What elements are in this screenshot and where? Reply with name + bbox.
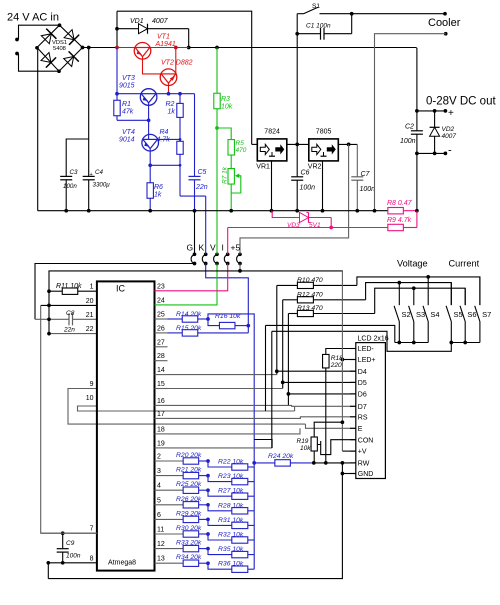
svg-text:R4: R4	[160, 129, 169, 136]
node D6	[287, 392, 291, 396]
capacitor C4 electrolytic	[83, 175, 95, 177]
node bridge right corner	[81, 46, 85, 50]
wire +5 main vertical to LCD	[341, 271, 343, 451]
junction ground rail	[355, 209, 359, 213]
wire ground to bottom border	[47, 563, 49, 579]
svg-text:24: 24	[157, 298, 165, 305]
svg-text:22n: 22n	[63, 327, 75, 334]
node ladder R24 tap	[252, 461, 256, 465]
node R34 junction	[206, 561, 210, 565]
svg-text:VT4: VT4	[122, 129, 135, 136]
wire G drop	[194, 211, 196, 251]
node RW R18	[324, 461, 328, 465]
zener VD3 5V1	[272, 211, 300, 218]
node + row left	[415, 109, 419, 113]
resistor R30 20k	[183, 531, 199, 537]
IC Atmega8 body	[97, 281, 155, 570]
wire D6 row	[288, 393, 355, 395]
svg-text:Current: Current	[449, 259, 480, 269]
resistor R34 20k	[183, 560, 199, 566]
wire K drop	[205, 196, 207, 250]
node R26 junction	[206, 503, 210, 507]
svg-text:20: 20	[86, 298, 94, 305]
node R8 right	[415, 209, 419, 213]
resistor R8 0.47 current sense	[388, 208, 404, 214]
svg-text:R27 10k: R27 10k	[218, 488, 244, 495]
svg-text:VR1: VR1	[256, 164, 270, 171]
output terminal -	[444, 152, 448, 156]
wire ladder bus	[253, 440, 255, 570]
junction ground rail	[270, 209, 274, 213]
wire bus1 R10	[357, 277, 480, 305]
wire cooler return	[375, 34, 446, 211]
node C1 branch	[295, 32, 299, 36]
wire pin19 jog	[254, 440, 272, 448]
svg-text:R22 10k: R22 10k	[218, 459, 244, 466]
capacitor C3	[60, 175, 72, 177]
wire pin19 row	[168, 447, 273, 449]
svg-text:RW: RW	[358, 461, 370, 468]
svg-text:D6: D6	[358, 392, 367, 399]
wire rail black mid	[189, 47, 417, 49]
wire V down to pin24	[168, 264, 218, 305]
svg-text:C4: C4	[95, 169, 103, 176]
capacitor C2 100n	[416, 111, 418, 130]
wire pin10 end jog	[294, 406, 296, 411]
switch S2	[398, 283, 400, 306]
svg-text:1k: 1k	[168, 109, 176, 116]
svg-text:R31 10k: R31 10k	[218, 517, 244, 524]
svg-text:D7: D7	[358, 404, 367, 411]
svg-text:VD1: VD1	[130, 18, 144, 25]
svg-text:19: 19	[157, 440, 165, 447]
node LED+ +5	[341, 358, 345, 362]
svg-text:26: 26	[157, 325, 165, 332]
svg-text:R16 10k: R16 10k	[215, 313, 241, 320]
wire LED+ to +5	[342, 359, 355, 361]
wire VR2 ground pin	[322, 161, 324, 211]
wire to C3 C4	[88, 48, 90, 177]
svg-text:R6: R6	[154, 184, 163, 191]
diode VD2 4007	[434, 111, 436, 127]
wire VR1 out to VR2 in	[287, 143, 309, 145]
wire to ladder bus	[208, 314, 254, 440]
wire pin24 green stub	[155, 304, 168, 306]
svg-text:R20 20k: R20 20k	[176, 452, 202, 459]
connector pin +5	[238, 252, 242, 256]
wire D7 row	[295, 405, 356, 407]
svg-text:R11 10k: R11 10k	[56, 283, 82, 290]
resistor R3 10k	[216, 48, 218, 94]
switch S7	[479, 277, 481, 305]
svg-text:RS: RS	[358, 414, 368, 421]
node S2 bottom	[397, 341, 401, 345]
wire AC neutral down	[36, 48, 39, 211]
svg-text:17: 17	[157, 411, 165, 418]
wire RW row	[314, 462, 356, 464]
svg-text:100n: 100n	[360, 186, 376, 193]
AC input terminal top	[15, 38, 19, 42]
wire D5 row	[283, 381, 356, 383]
node S4 top	[426, 275, 430, 279]
node pin20 +5	[47, 304, 51, 308]
svg-text:4: 4	[157, 483, 161, 490]
svg-text:10: 10	[86, 395, 94, 402]
wire top feeder to VR1	[117, 11, 252, 144]
wire K source	[180, 195, 206, 197]
wire D6 vertical	[287, 314, 289, 406]
connector pin I	[226, 252, 230, 256]
node D4	[275, 369, 279, 373]
wire GND row	[342, 473, 355, 475]
node VT4 emitter node	[148, 163, 152, 167]
node S1/C1 join	[350, 12, 354, 16]
resistor R36 10k	[208, 563, 232, 569]
svg-text:22n: 22n	[195, 184, 208, 191]
svg-text:7824: 7824	[264, 129, 280, 136]
resistor R18 220	[323, 354, 330, 368]
node R29 junction	[206, 518, 210, 522]
resistor R6 1k	[149, 165, 151, 183]
svg-text:R34 20k: R34 20k	[176, 554, 202, 561]
resistor R16 10k	[208, 319, 220, 326]
node VD2 bottom	[433, 152, 437, 156]
svg-text:R25 20k: R25 20k	[176, 481, 202, 488]
resistor R29 20k	[183, 516, 199, 522]
svg-text:S6: S6	[467, 310, 476, 319]
node D5	[281, 381, 285, 385]
svg-text:4.7k: 4.7k	[157, 137, 171, 144]
node R21 junction	[206, 474, 210, 478]
svg-text:CON: CON	[358, 437, 374, 444]
svg-text:3300μ: 3300μ	[93, 182, 111, 189]
node R3 top	[215, 46, 219, 50]
switch S4	[427, 277, 429, 305]
node - row left	[415, 152, 419, 156]
wire pin14 to D4 vertical	[168, 374, 277, 376]
svg-text:R21 20k: R21 20k	[176, 467, 202, 474]
wire VCC long drop to pin7	[41, 305, 97, 533]
wire +5 to rail	[239, 264, 241, 271]
switch S3	[413, 288, 415, 305]
wire D7 jog	[288, 404, 294, 407]
svg-text:9015: 9015	[119, 83, 135, 90]
svg-text:GND: GND	[358, 471, 374, 478]
svg-text:R13 470: R13 470	[297, 305, 323, 312]
wire VT4 emitter to R6	[149, 149, 151, 166]
svg-text:R8 0.47: R8 0.47	[387, 200, 413, 207]
wire S1 branch vertical	[296, 14, 298, 145]
svg-text:VD2: VD2	[442, 126, 455, 133]
resistor R32 10k	[208, 534, 232, 540]
svg-text:R14 20k: R14 20k	[176, 311, 202, 318]
resistor R12 470	[283, 299, 298, 301]
connector pin K	[204, 252, 208, 256]
resistor R9 4.7k	[331, 227, 388, 229]
svg-text:16: 16	[157, 398, 165, 405]
svg-text:C9: C9	[66, 540, 75, 547]
node VD1 cathode junction	[187, 46, 191, 50]
cooler terminal -	[444, 32, 448, 36]
junction ground rail	[373, 209, 377, 213]
svg-text:-: -	[448, 145, 452, 157]
resistor R31 10k	[208, 519, 232, 525]
svg-text:VR2: VR2	[308, 164, 322, 171]
wire +5 rail	[49, 270, 342, 273]
resistor R1 47k	[116, 94, 118, 101]
node C9 top	[61, 531, 65, 535]
svg-text:LCD 2x16: LCD 2x16	[358, 336, 389, 343]
svg-text:+5: +5	[231, 243, 241, 253]
node VD1 anode	[115, 27, 119, 31]
svg-text:VT2 D882: VT2 D882	[161, 60, 193, 67]
node S5 bottom	[449, 341, 453, 345]
svg-text:220: 220	[330, 362, 342, 369]
node R2 top junction	[178, 92, 182, 96]
svg-text:R30 20k: R30 20k	[176, 525, 202, 532]
node R33 junction	[206, 547, 210, 551]
node I tap	[329, 226, 333, 230]
node R16 right K junction	[246, 324, 250, 328]
svg-text:C6: C6	[301, 170, 310, 177]
AC input terminal bottom	[15, 52, 19, 56]
wire RS from pin17	[168, 417, 356, 419]
svg-text:R19: R19	[297, 438, 309, 445]
wire C1 up to S1 line	[351, 14, 353, 34]
svg-text:24 V AC in: 24 V AC in	[7, 12, 59, 24]
wire pin15 to D5 vertical	[168, 388, 283, 390]
svg-text:LED+: LED+	[358, 357, 376, 364]
wire VT2 collector to rail	[175, 48, 177, 74]
svg-text:E: E	[358, 426, 363, 433]
svg-text:C3: C3	[70, 169, 78, 176]
capacitor C9 100n	[62, 533, 64, 548]
wire +5 left drop	[48, 271, 50, 334]
svg-text:10k: 10k	[300, 445, 311, 452]
svg-text:C7: C7	[361, 171, 371, 178]
svg-text:VT1: VT1	[157, 34, 170, 41]
svg-text:27: 27	[157, 339, 165, 346]
svg-text:R36 10k: R36 10k	[218, 561, 244, 568]
node VR1 out / C6 / S1 feed	[295, 143, 299, 147]
wire VT3 collector to blue rail	[156, 93, 195, 95]
svg-text:3: 3	[157, 468, 161, 475]
svg-text:R15 20k: R15 20k	[176, 325, 202, 332]
resistor R25 20k	[183, 487, 199, 493]
svg-text:R33 20k: R33 20k	[176, 540, 202, 547]
wire bus2 R12	[366, 283, 452, 305]
trimmer R19 10k	[311, 437, 317, 451]
wire VT1 base to VT2	[143, 57, 162, 74]
svg-text:18: 18	[157, 426, 165, 433]
svg-text:R3: R3	[221, 96, 230, 103]
wire +V row	[342, 450, 355, 452]
node RW R19	[312, 461, 316, 465]
svg-text:11: 11	[157, 527, 164, 534]
svg-text:5408: 5408	[53, 46, 66, 52]
wire switch bottom bus voltage	[395, 342, 428, 344]
node VT2e junction on blue rail	[167, 92, 171, 96]
wire VD1 to rail	[188, 29, 190, 48]
svg-text:Cooler: Cooler	[428, 17, 461, 29]
svg-text:10k: 10k	[221, 104, 233, 111]
bridge rectifier VDS1 diamond	[37, 25, 83, 71]
svg-text:12: 12	[157, 541, 165, 548]
wire minus down to R8	[416, 153, 418, 210]
svg-text:C1 100n: C1 100n	[306, 23, 331, 30]
node R11 feed	[47, 289, 51, 293]
regulator VR2 7805	[309, 139, 339, 161]
wire VT3 emitter down to VT4	[148, 103, 150, 139]
transistor VT4 9014	[142, 134, 159, 151]
node VT2 collector rail junction	[174, 46, 178, 50]
wire pin23 pink stub	[155, 290, 168, 292]
wire pin10 loop	[78, 406, 295, 411]
svg-text:0-28V DC out: 0-28V DC out	[426, 96, 496, 108]
resistor R35 10k	[208, 549, 232, 555]
svg-text:6: 6	[157, 512, 161, 519]
svg-text:C5: C5	[198, 169, 207, 176]
resistor R21 20k	[183, 472, 199, 478]
svg-text:S4: S4	[430, 310, 439, 319]
wire D5 vertical	[282, 300, 284, 389]
svg-text:100n: 100n	[300, 185, 316, 192]
svg-text:4007: 4007	[442, 133, 457, 140]
svg-text:S3: S3	[416, 310, 425, 319]
transistor VT3 9015	[140, 89, 157, 106]
junction ground rail	[295, 209, 299, 213]
svg-text:+V: +V	[358, 449, 367, 456]
bridge diode top-right	[64, 30, 74, 40]
resistor R5 470	[217, 128, 231, 140]
node R3 bottom junction	[215, 126, 219, 130]
svg-text:21: 21	[86, 312, 94, 319]
svg-text:100n: 100n	[63, 183, 77, 190]
junction ground rail	[64, 209, 68, 213]
cooler terminal +	[443, 12, 447, 16]
capacitor C7 100n	[356, 144, 358, 176]
LCD module body	[356, 343, 386, 479]
wire base feed	[117, 93, 141, 95]
svg-text:R5: R5	[236, 140, 245, 147]
node VT4 base R2 R4 junction	[179, 138, 182, 141]
node R4 bottom	[179, 164, 182, 167]
resistor R14 20k	[168, 318, 183, 320]
regulator VR1 7824	[257, 139, 287, 161]
svg-text:C8: C8	[66, 310, 75, 317]
svg-text:I: I	[222, 243, 224, 253]
svg-text:Voltage: Voltage	[397, 259, 428, 269]
svg-text:1: 1	[90, 284, 94, 291]
wire pin7 stub	[41, 532, 97, 534]
svg-text:R2: R2	[166, 101, 175, 108]
wire S-voltage net vertical	[265, 325, 267, 411]
svg-text:9014: 9014	[119, 137, 135, 144]
node S2 top	[397, 281, 401, 285]
node C8 net	[47, 317, 51, 321]
svg-text:R32 10k: R32 10k	[218, 532, 244, 539]
node pin8 corner	[46, 561, 50, 565]
wire VR1 input	[252, 143, 258, 145]
node +5 rail tap	[238, 269, 242, 273]
wire S-current net vertical	[271, 331, 273, 448]
node bridge top corner	[58, 23, 62, 27]
svg-text:25: 25	[157, 312, 165, 319]
wire raw+ rail	[83, 47, 118, 49]
wire V green drop	[216, 128, 218, 251]
wire VT1 collector to rail right	[150, 47, 189, 49]
node R1 bottom junction	[147, 118, 151, 122]
svg-text:22: 22	[86, 326, 94, 333]
wire switch bottom bus current	[451, 342, 480, 344]
resistor R4 4.7k	[177, 141, 183, 154]
node R20 junction	[206, 459, 210, 463]
junction ground rail	[229, 209, 233, 213]
svg-text:S7: S7	[482, 310, 491, 319]
resistor R26 20k	[183, 502, 199, 508]
node rail red junction	[115, 46, 119, 50]
svg-text:V: V	[210, 243, 216, 253]
svg-text:13: 13	[157, 556, 165, 563]
svg-text:S2: S2	[402, 310, 411, 319]
svg-text:R12 470: R12 470	[297, 292, 323, 299]
resistor R15 20k	[168, 332, 183, 334]
wire pin22 row	[49, 333, 97, 335]
node VR2 out	[347, 143, 351, 147]
wire	[17, 39, 19, 41]
wire R19 top link	[314, 422, 342, 437]
diode VD1	[117, 28, 139, 30]
svg-text:D4: D4	[358, 369, 367, 376]
svg-text:9: 9	[90, 381, 94, 388]
wire VR1 ground pin	[271, 161, 273, 211]
svg-text:15: 15	[157, 381, 165, 388]
resistor R23 10k	[208, 476, 232, 482]
trimmer R7 1k	[228, 169, 234, 185]
junction ground rail	[148, 209, 152, 213]
output terminal +	[444, 109, 448, 113]
wire pin18 row	[168, 428, 301, 434]
svg-text:23: 23	[157, 284, 165, 291]
svg-text:R1: R1	[122, 101, 131, 108]
wire rail corner down	[415, 48, 418, 111]
resistor R2 1k	[179, 94, 181, 104]
wire - row	[417, 152, 446, 154]
svg-text:R28 10k: R28 10k	[218, 502, 244, 509]
wire G to ground frame	[35, 264, 195, 320]
svg-text:2: 2	[157, 454, 161, 461]
svg-text:G: G	[187, 243, 194, 253]
svg-text:R35 10k: R35 10k	[218, 546, 244, 553]
svg-text:VT3: VT3	[122, 75, 135, 82]
wire ground segment RW-GND	[341, 463, 343, 579]
svg-text:+: +	[448, 108, 454, 119]
wire bus3 R13	[375, 288, 466, 313]
wire current bus link	[272, 331, 452, 351]
wire emitter to R4 bottom	[150, 164, 180, 166]
wire rail to VT3 base (blue drop)	[116, 48, 118, 94]
node bridge bottom corner	[57, 69, 61, 73]
junction ground rail	[193, 209, 197, 213]
wire AVCC pin20	[41, 304, 97, 306]
svg-text:S1: S1	[312, 3, 320, 10]
wire D4 row	[277, 370, 356, 372]
resistor R27 10k	[208, 490, 232, 496]
svg-text:+: +	[90, 172, 93, 178]
capacitor C1 100n	[297, 33, 320, 35]
wire I drop	[227, 228, 229, 251]
svg-text:28: 28	[157, 353, 165, 360]
